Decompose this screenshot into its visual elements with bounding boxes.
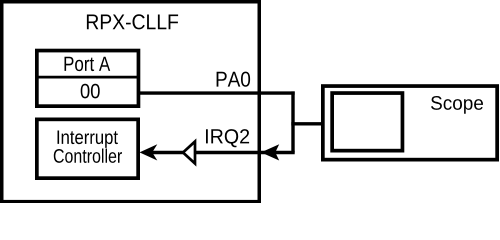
wire branch to scope xyxy=(291,122,324,125)
wire vertical junction segment xyxy=(291,91,294,152)
register Port A box xyxy=(37,51,139,107)
value 00 xyxy=(81,84,100,99)
label Scope xyxy=(431,96,483,114)
net label IRQ2 xyxy=(206,129,249,147)
arrowhead into Interrupt Controller xyxy=(140,144,158,160)
label RPX-CLLF xyxy=(87,14,178,29)
label Interrupt (line 1) xyxy=(58,131,118,148)
net label PA0 xyxy=(217,72,251,87)
label Controller (line 2) xyxy=(54,149,122,163)
scope screen square xyxy=(332,93,402,151)
block U1 RPX-CLLF box xyxy=(2,2,260,202)
block Scope box xyxy=(323,86,497,160)
arrowhead into RPX-CLLF box xyxy=(261,144,279,160)
buffer triangle on IRQ2 xyxy=(183,142,195,164)
block Interrupt Controller box xyxy=(37,119,138,178)
Port A divider xyxy=(36,76,139,79)
wire IRQ2 horizontal xyxy=(150,151,295,154)
label Port A xyxy=(65,57,111,71)
wire PA0 horizontal from Port A to junction xyxy=(138,91,295,94)
